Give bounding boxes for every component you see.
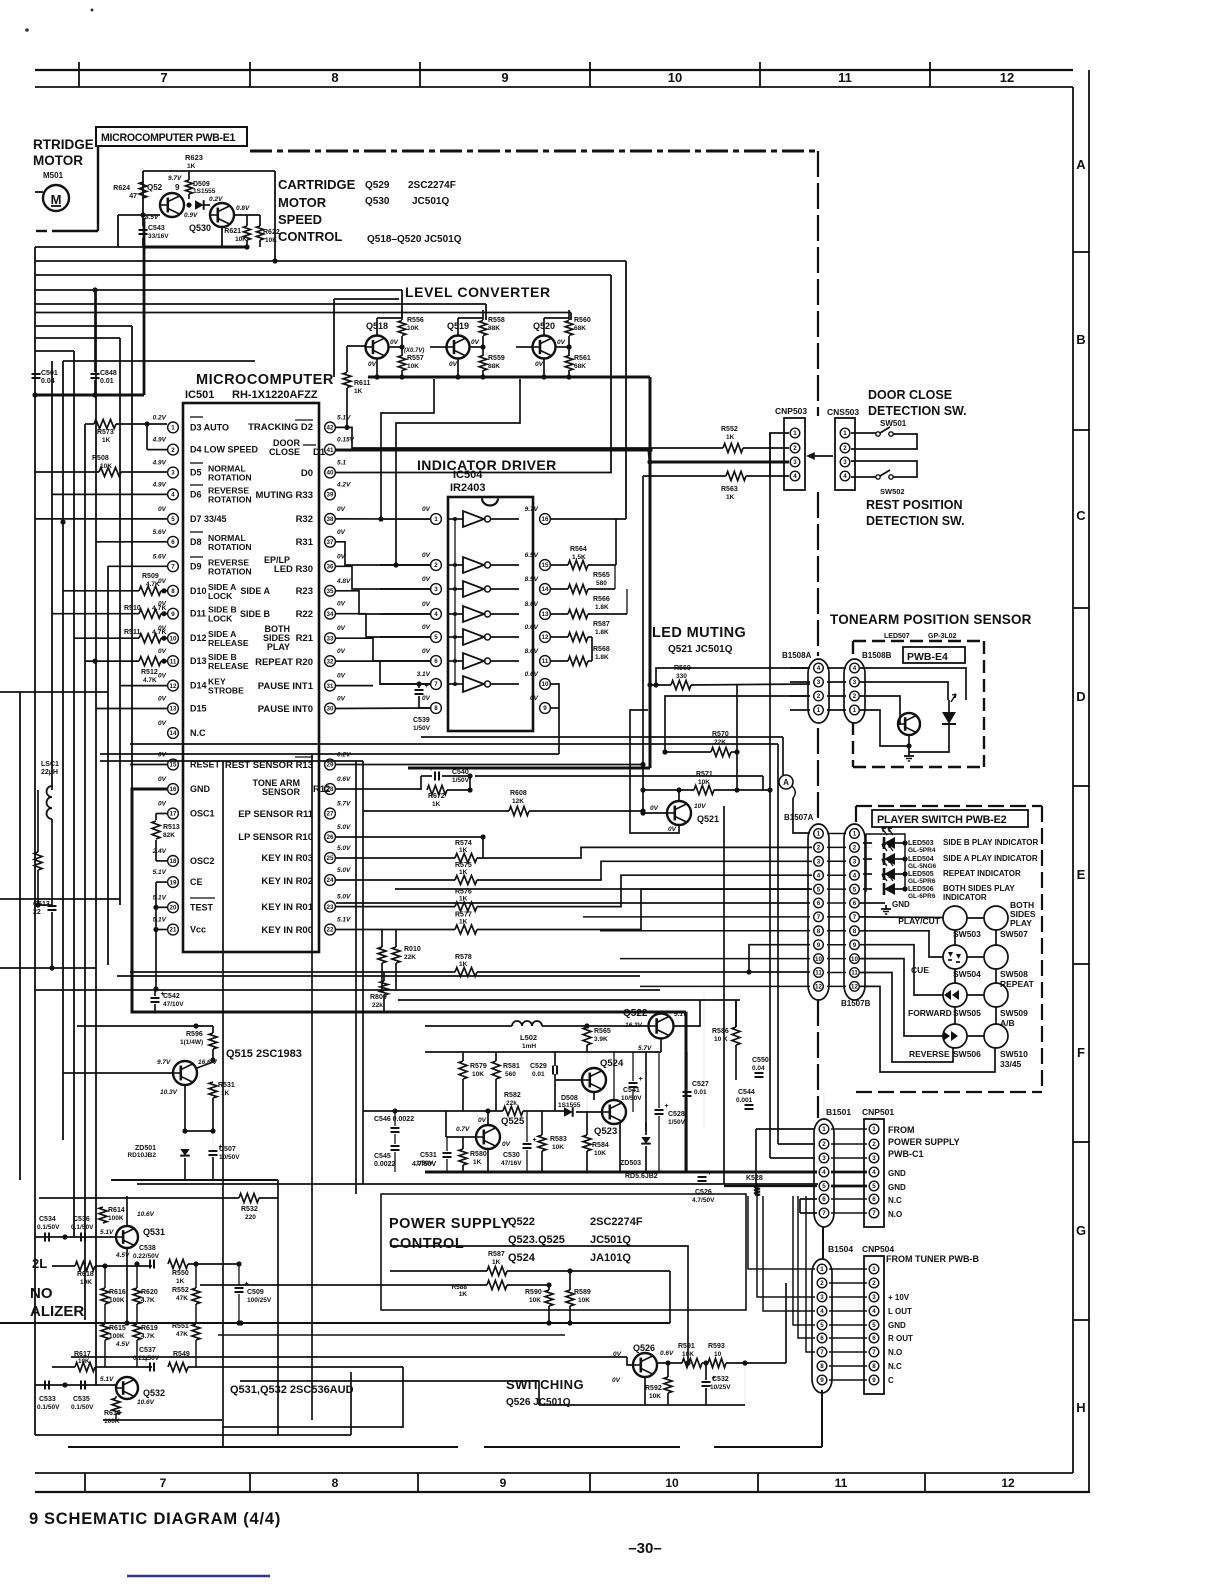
svg-text:4: 4 (434, 611, 438, 618)
svg-text:G: G (1076, 1223, 1086, 1238)
IC504 inverter pin 5 (431, 632, 442, 643)
resistor R568 (568, 657, 588, 666)
svg-text:8: 8 (331, 70, 338, 85)
wire B1508 connects (790, 667, 810, 669)
switch SW507 (984, 906, 1008, 930)
svg-text:C537: C537 (139, 1347, 156, 1354)
resistor R571 (694, 786, 714, 795)
svg-text:2: 2 (434, 562, 438, 569)
B1508A pin 2 (814, 691, 824, 701)
svg-text:6: 6 (434, 658, 438, 665)
resistor R592 (664, 1377, 672, 1393)
svg-text:LED R30: LED R30 (274, 564, 313, 575)
svg-text:(X0.7V): (X0.7V) (404, 348, 424, 354)
wire feeds CNP501 GND2 (724, 1185, 817, 1187)
B1501 pin 6 (819, 1194, 829, 1204)
label box MICROCOMPUTER PWB-E1 (96, 127, 247, 146)
svg-text:Q523.Q525: Q523.Q525 (508, 1234, 565, 1246)
wire mid verticals (362, 761, 364, 1184)
wire top rail power (398, 999, 740, 1001)
svg-text:BOTH SIDES PLAY: BOTH SIDES PLAY (943, 884, 1015, 893)
svg-text:A: A (1076, 157, 1086, 172)
svg-text:3: 3 (171, 470, 175, 477)
svg-text:C509: C509 (247, 1289, 264, 1296)
svg-text:0V: 0V (471, 339, 480, 346)
svg-text:JA101Q: JA101Q (590, 1252, 631, 1264)
wire bus drop d1 (625, 261, 627, 519)
resistor R578 (455, 968, 477, 977)
resistor R565 (568, 585, 588, 594)
switch SW506 reverse (943, 1024, 967, 1048)
resistor R510 (139, 609, 161, 618)
svg-text:12K: 12K (512, 798, 524, 805)
svg-text:FORWARD: FORWARD (908, 1008, 952, 1018)
svg-text:R578: R578 (455, 954, 472, 961)
B1504 pin 3 (817, 1292, 827, 1302)
wire B1507A pin5 feed (395, 888, 810, 890)
svg-text:1/50V: 1/50V (668, 1119, 686, 1126)
B1507B pin 5 (850, 884, 860, 894)
svg-text:42: 42 (327, 425, 334, 432)
svg-text:ROTATION: ROTATION (208, 566, 252, 576)
svg-text:1S1555: 1S1555 (558, 1102, 581, 1109)
IC504 inverter pin 2 (431, 560, 442, 571)
capacitor C538 (149, 1260, 151, 1269)
svg-text:2: 2 (820, 1280, 824, 1287)
svg-text:26: 26 (327, 834, 334, 841)
IC501 pin 38 (325, 514, 336, 525)
IC501 pin 37 (325, 536, 336, 547)
svg-text:33/16V: 33/16V (148, 233, 169, 240)
wire Q522 collector right (673, 1000, 700, 1026)
CNP503 pin 1 (790, 428, 800, 438)
wire CE TEST Vcc rail (156, 881, 167, 883)
svg-text:CNP503: CNP503 (775, 406, 807, 416)
resistor R620 (133, 1288, 141, 1304)
svg-text:R557: R557 (407, 355, 424, 362)
svg-text:0.01: 0.01 (694, 1089, 707, 1096)
svg-text:R568: R568 (593, 646, 610, 653)
svg-text:EP SENSOR R11: EP SENSOR R11 (238, 809, 314, 820)
svg-text:11: 11 (835, 1476, 848, 1490)
IC504 output pin 16 (540, 514, 551, 525)
phototransistor LED507 (898, 713, 920, 735)
svg-text:R616: R616 (109, 1289, 126, 1296)
svg-text:R583: R583 (550, 1136, 567, 1143)
wire x670 drop (669, 1271, 671, 1323)
svg-text:GP-3L02: GP-3L02 (928, 633, 957, 640)
svg-text:Q518–Q520 JC501Q: Q518–Q520 JC501Q (367, 234, 462, 245)
B1508B pin 4 (850, 663, 860, 673)
label box PLAYER SWITCH PWB-E2 (872, 810, 1028, 827)
svg-text:4.7K: 4.7K (152, 629, 166, 636)
svg-text:GL-5PR4: GL-5PR4 (908, 847, 936, 854)
svg-text:1K: 1K (459, 1291, 468, 1298)
svg-text:0V: 0V (337, 529, 346, 536)
IC501 pin 40 (325, 467, 336, 478)
svg-text:8: 8 (817, 928, 821, 935)
svg-text:2: 2 (853, 693, 857, 700)
svg-text:D0: D0 (301, 468, 313, 479)
svg-text:3: 3 (872, 1155, 876, 1162)
border tick (1073, 607, 1089, 609)
wire bus h4 (35, 303, 486, 305)
svg-text:31: 31 (327, 683, 334, 690)
svg-text:D12: D12 (190, 633, 207, 643)
svg-text:REVERSE: REVERSE (909, 1049, 950, 1059)
svg-text:0V: 0V (158, 776, 167, 783)
B1501 pin 3 (819, 1153, 829, 1163)
svg-text:D5: D5 (190, 468, 202, 478)
svg-text:GND: GND (892, 900, 910, 909)
transistor Q529 (160, 193, 184, 217)
svg-text:F: F (1077, 1045, 1085, 1060)
svg-text:R579: R579 (470, 1063, 487, 1070)
svg-text:6: 6 (171, 539, 175, 546)
capacitor C513 (48, 905, 57, 907)
wire pin9 stub (551, 707, 559, 709)
CNS503 pin 2 (840, 443, 850, 453)
wire B1507A pin8 stub (600, 930, 810, 932)
svg-text:LED503: LED503 (908, 840, 934, 847)
ruler tick bottom (589, 1473, 591, 1492)
svg-text:R584: R584 (592, 1142, 609, 1149)
wire sw row p7 (860, 916, 943, 919)
svg-text:4.9V: 4.9V (152, 437, 167, 444)
wire switch rows (967, 917, 984, 919)
CNP504 pin 4 (869, 1306, 879, 1316)
svg-text:560: 560 (505, 1071, 516, 1078)
svg-text:RTRIDGE: RTRIDGE (33, 137, 94, 152)
svg-text:88K: 88K (488, 325, 500, 332)
svg-text:SPEED: SPEED (278, 212, 322, 227)
IC501 pin 27 (325, 808, 336, 819)
svg-text:5: 5 (171, 516, 175, 523)
svg-text:D509: D509 (193, 181, 210, 188)
resistor R552 (723, 444, 743, 453)
svg-text:0V: 0V (158, 648, 167, 655)
svg-text:ROTATION: ROTATION (208, 494, 252, 504)
svg-text:1K: 1K (473, 1159, 482, 1166)
svg-text:0.1/50V: 0.1/50V (71, 1404, 94, 1411)
svg-text:11: 11 (838, 70, 852, 85)
svg-text:C533: C533 (39, 1396, 56, 1403)
capacitor C531 (443, 1152, 452, 1154)
svg-text:C507: C507 (219, 1146, 236, 1153)
wire bus h8 (35, 350, 74, 352)
svg-text:GND: GND (190, 784, 211, 794)
B1507A pin 2 (814, 843, 824, 853)
border tick (1073, 251, 1089, 253)
wire left edge stub2 (0, 898, 120, 900)
svg-text:1.8K: 1.8K (595, 629, 609, 636)
IC504 output pin 11 (540, 656, 551, 667)
IC501 pin 36 (325, 561, 336, 572)
resistor R560 (565, 321, 573, 336)
B1501 pin 4 (819, 1167, 829, 1177)
wire R563 vertical to Q521 base (642, 476, 644, 813)
svg-text:R510: R510 (124, 605, 141, 612)
svg-text:N.C: N.C (888, 1362, 902, 1371)
wire node A feed (782, 737, 784, 775)
svg-text:4.9V: 4.9V (152, 460, 167, 467)
IC504 inverter pin 4 (431, 609, 442, 620)
B1508A pin 1 (814, 705, 824, 715)
svg-text:R12: R12 (313, 784, 330, 795)
wire SW501 loop (851, 432, 876, 434)
resistor R611 (343, 373, 351, 388)
wire B1504 bottom route (821, 1390, 823, 1447)
svg-text:3: 3 (843, 459, 847, 466)
capacitors C546 C545 (391, 1127, 400, 1129)
svg-text:1/50V: 1/50V (413, 725, 431, 732)
svg-text:11: 11 (851, 970, 858, 977)
wire feeds CNP501 stubs (800, 1198, 817, 1200)
resistor R556 (398, 321, 406, 336)
resistor R564 (568, 561, 588, 570)
wire bus drops right (685, 1012, 688, 1172)
svg-text:8: 8 (434, 705, 438, 712)
svg-text:C545: C545 (374, 1153, 391, 1160)
svg-text:9: 9 (872, 1377, 876, 1384)
svg-text:4.5V: 4.5V (115, 1341, 130, 1348)
svg-text:D13: D13 (190, 656, 207, 666)
B1501 pin 1 (819, 1124, 829, 1134)
wire row 1335 (218, 1334, 565, 1336)
transistor Q525 (476, 1125, 500, 1149)
svg-text:C501: C501 (41, 370, 58, 377)
svg-text:SW503: SW503 (953, 929, 981, 939)
wire PAUSE INT0 row to IC504 pin8 (336, 707, 430, 710)
svg-text:Q530: Q530 (189, 223, 211, 233)
svg-text:SIDE B PLAY INDICATOR: SIDE B PLAY INDICATOR (943, 838, 1039, 847)
wire thick door close (336, 450, 789, 462)
transistor Q523 (602, 1100, 626, 1124)
IC501 pin 31 (325, 680, 336, 691)
svg-text:SW504: SW504 (953, 969, 981, 979)
svg-text:0V: 0V (422, 624, 431, 631)
svg-text:Q522: Q522 (508, 1216, 535, 1228)
svg-text:R560: R560 (574, 317, 591, 324)
wire row 1381 (240, 1380, 539, 1382)
wire long h 754 (100, 753, 559, 755)
resistor R810 22K pair (378, 947, 386, 963)
svg-text:2: 2 (171, 447, 175, 454)
svg-text:0V: 0V (337, 648, 346, 655)
IC501 body (183, 403, 319, 952)
svg-text:CNS503: CNS503 (827, 407, 859, 417)
resistor R531 (209, 1082, 217, 1098)
svg-text:B1507A: B1507A (784, 813, 814, 822)
svg-text:0V: 0V (390, 339, 399, 346)
svg-text:4.7K: 4.7K (152, 605, 166, 612)
svg-text:1K: 1K (176, 1278, 185, 1285)
svg-text:100K: 100K (104, 1418, 120, 1425)
wire lc riser B (396, 379, 520, 565)
resistor R567 (568, 633, 588, 642)
resistor R622 (257, 226, 264, 240)
B1507B pin 9 (850, 940, 860, 950)
svg-text:D10: D10 (190, 586, 207, 596)
wire x688 drop (390, 1246, 688, 1363)
wire Q518 collector node (389, 346, 403, 348)
wire long h 737 (421, 736, 783, 738)
svg-text:LED506: LED506 (908, 886, 934, 893)
wire photo emitter to ground (908, 735, 910, 752)
ground PWB-E4 (908, 752, 910, 756)
svg-text:22k: 22k (506, 1100, 517, 1107)
resistor R617 (75, 1363, 95, 1372)
wire pin6 feed (96, 541, 167, 543)
svg-text:B: B (1076, 332, 1085, 347)
wire row 776 right (475, 775, 763, 777)
svg-text:16: 16 (542, 516, 549, 523)
connector CNP503 (784, 418, 805, 490)
svg-text:2: 2 (817, 845, 821, 852)
svg-text:R565: R565 (593, 572, 610, 579)
capacitor C540 (434, 772, 436, 781)
svg-text:7: 7 (872, 1349, 876, 1356)
wire LED feeds (860, 843, 872, 847)
capacitor C533 (44, 1381, 46, 1390)
resistor R583 (538, 1135, 546, 1151)
svg-text:10K: 10K (80, 1279, 92, 1286)
svg-text:Q529: Q529 (365, 180, 390, 191)
svg-text:SENSOR: SENSOR (262, 787, 301, 797)
resistor R621 (244, 226, 251, 240)
resistor R559 (479, 356, 487, 371)
svg-text:PLAY: PLAY (1010, 918, 1032, 928)
svg-text:0V: 0V (158, 720, 167, 727)
svg-text:3: 3 (817, 679, 821, 686)
svg-text:3: 3 (817, 859, 821, 866)
IC501 pin 10 (168, 633, 179, 644)
svg-text:R512: R512 (141, 669, 158, 676)
resistor R512 (139, 657, 161, 666)
svg-text:6: 6 (872, 1196, 876, 1203)
svg-text:5.7V: 5.7V (337, 801, 351, 808)
wire bus h2 (35, 274, 611, 276)
svg-text:R575: R575 (455, 862, 472, 869)
wire B1507A pin10 stub (620, 958, 810, 960)
svg-text:10: 10 (815, 956, 822, 963)
IC504 pin 9 (540, 703, 551, 714)
wire B1507A pin6 feed (336, 902, 810, 904)
capacitor C507 (209, 1150, 218, 1152)
svg-text:R623: R623 (185, 153, 203, 162)
svg-text:1K: 1K (492, 1259, 501, 1266)
svg-text:0.6V: 0.6V (660, 1350, 674, 1357)
transistor Q518 (366, 336, 389, 359)
arrow CNS to CNP (812, 455, 833, 457)
svg-text:4.7K: 4.7K (141, 1297, 155, 1304)
IC504 inverter pin 1 (431, 514, 442, 525)
resistor left R5xx (34, 852, 42, 870)
svg-text:R552: R552 (172, 1287, 189, 1294)
svg-text:ROTATION: ROTATION (208, 542, 252, 552)
svg-text:R566: R566 (593, 596, 610, 603)
IC501 pin 8 (168, 585, 179, 596)
svg-text:5.1: 5.1 (337, 460, 346, 467)
svg-text:1K: 1K (187, 163, 196, 170)
CNP501 pin 4 (869, 1167, 879, 1177)
svg-text:R561: R561 (574, 355, 591, 362)
svg-text:9: 9 (853, 942, 857, 949)
svg-text:6.5V: 6.5V (525, 552, 539, 559)
svg-text:0V: 0V (337, 696, 346, 703)
svg-text:9: 9 (500, 1476, 507, 1490)
svg-text:10: 10 (170, 635, 177, 642)
svg-text:0V: 0V (530, 695, 539, 702)
svg-text:5.0V: 5.0V (337, 867, 351, 874)
CNP504 pin 3 (869, 1292, 879, 1302)
wire Q518 emitter (376, 358, 378, 377)
svg-text:0V: 0V (337, 506, 346, 513)
wire Q515 emitter (184, 1085, 186, 1131)
IC501 pin 14 (168, 728, 179, 739)
wire left edge stub1 (0, 691, 108, 693)
resistor R809 (380, 981, 388, 995)
IC501 pin 19 (168, 877, 179, 888)
wire power mid verticals (645, 1052, 647, 1131)
wire pin2 feed (146, 424, 148, 450)
svg-text:2: 2 (822, 1141, 826, 1148)
svg-text:5.1V: 5.1V (100, 1229, 114, 1236)
transistor Q522 (649, 1014, 674, 1039)
node A circle (779, 775, 793, 789)
svg-text:1K: 1K (726, 494, 735, 501)
diode D508 (564, 1107, 573, 1117)
wire Q521 collector (678, 790, 680, 801)
svg-text:R531: R531 (218, 1082, 235, 1089)
svg-text:10 K: 10 K (714, 1036, 728, 1043)
resistor R509 (139, 586, 161, 595)
svg-text:R OUT: R OUT (888, 1334, 913, 1343)
resistor R573 (94, 420, 116, 429)
ruler tick bottom (84, 1473, 86, 1492)
svg-text:R586: R586 (712, 1028, 729, 1035)
IC501 pin 22 (325, 924, 336, 935)
B1501 pin 7 (819, 1208, 829, 1218)
svg-text:2: 2 (872, 1280, 876, 1287)
IC504 output pin 10 (540, 679, 551, 690)
svg-text:SW506: SW506 (953, 1049, 981, 1059)
capacitor C550 (755, 1072, 764, 1074)
svg-text:10K: 10K (698, 779, 710, 786)
wire left bus v2 (51, 361, 53, 790)
svg-text:MICROCOMPUTER: MICROCOMPUTER (196, 372, 334, 388)
svg-text:SW510: SW510 (1000, 1049, 1028, 1059)
svg-text:8: 8 (853, 928, 857, 935)
IC501 pin 30 (325, 703, 336, 714)
CNS503 pin 4 (840, 471, 850, 481)
svg-text:INDICATOR: INDICATOR (943, 893, 987, 902)
svg-text:KEY IN R02: KEY IN R02 (261, 876, 313, 887)
svg-text:10: 10 (668, 70, 682, 85)
svg-text:47: 47 (129, 193, 137, 200)
svg-text:10K: 10K (552, 1144, 564, 1151)
svg-text:R21: R21 (296, 633, 314, 644)
svg-text:Q523: Q523 (594, 1126, 617, 1137)
wire bus h5 (35, 312, 571, 314)
svg-text:1K: 1K (459, 896, 468, 903)
wire B1501 to B1504 link (822, 1227, 824, 1259)
wire left low v (19, 692, 21, 1180)
svg-text:0.6V: 0.6V (337, 776, 351, 783)
svg-text:0.001: 0.001 (736, 1097, 753, 1104)
svg-text:TEST: TEST (190, 902, 214, 912)
svg-text:5: 5 (872, 1322, 876, 1329)
